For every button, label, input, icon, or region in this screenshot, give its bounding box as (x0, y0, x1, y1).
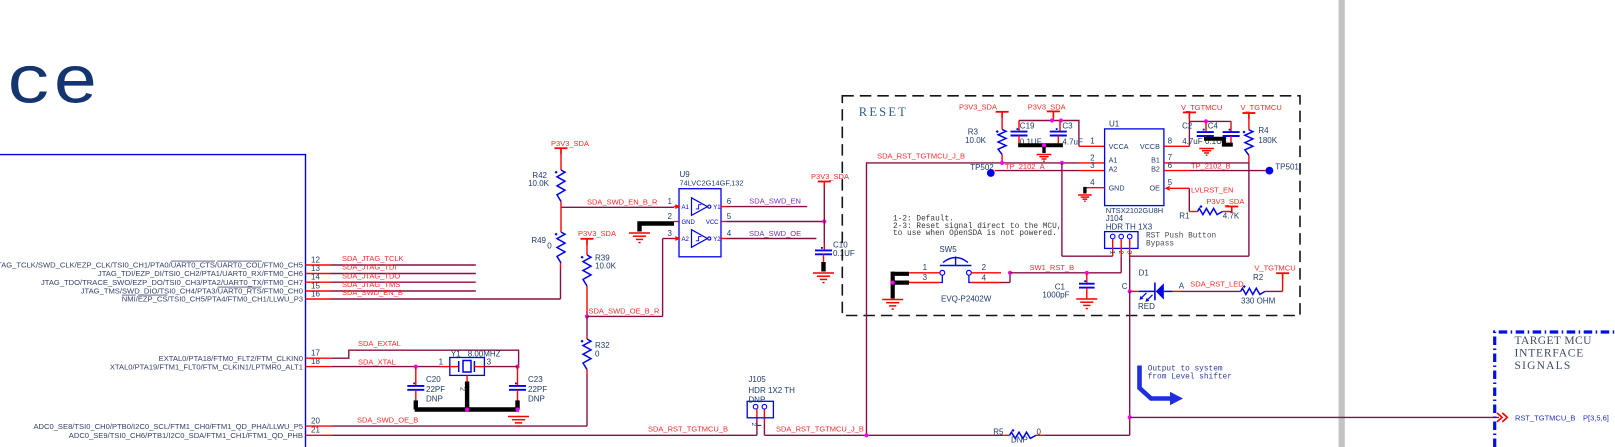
svg-text:C20: C20 (426, 375, 441, 384)
svg-text:C23: C23 (528, 375, 543, 384)
svg-text:2: 2 (668, 212, 673, 221)
svg-text:SDA_SWD_EN_B: SDA_SWD_EN_B (342, 288, 403, 297)
svg-text:SDA_SWD_OE_B_R: SDA_SWD_OE_B_R (589, 306, 660, 315)
svg-text:16: 16 (311, 289, 320, 298)
svg-text:ce: ce (6, 46, 98, 123)
svg-text:SDA_SWD_OE: SDA_SWD_OE (749, 229, 801, 238)
svg-text:V_TGTMCU: V_TGTMCU (1254, 263, 1295, 272)
svg-text:C4: C4 (1208, 122, 1219, 131)
svg-text:Y1: Y1 (451, 350, 461, 359)
svg-text:1: 1 (923, 263, 928, 272)
svg-text:DNP: DNP (426, 394, 443, 403)
svg-text:5: 5 (727, 212, 732, 221)
svg-text:SDA_EXTAL: SDA_EXTAL (358, 339, 401, 348)
svg-text:to use when OpenSDA is not pow: to use when OpenSDA is not powered. (893, 230, 1057, 238)
svg-text:330 OHM: 330 OHM (1241, 296, 1276, 305)
svg-text:V_TGTMCU: V_TGTMCU (1241, 103, 1282, 112)
svg-text:HDR 1X2 TH: HDR 1X2 TH (748, 386, 795, 395)
svg-text:DNP: DNP (748, 395, 765, 404)
svg-text:Output to system: Output to system (1148, 365, 1223, 373)
svg-text:from Level shifter: from Level shifter (1148, 374, 1232, 382)
svg-text:0: 0 (1037, 427, 1042, 436)
svg-text:2: 2 (982, 263, 987, 272)
svg-text:5: 5 (1168, 178, 1173, 187)
svg-text:10.0K: 10.0K (595, 262, 617, 271)
svg-text:1: 1 (668, 197, 673, 206)
svg-text:HDR TH 1X3: HDR TH 1X3 (1106, 222, 1153, 231)
svg-text:3: 3 (923, 273, 928, 282)
svg-text:13: 13 (311, 264, 320, 273)
svg-text:74LVC2G14GF,132: 74LVC2G14GF,132 (680, 179, 744, 188)
svg-text:Y2: Y2 (713, 237, 721, 243)
svg-text:P3V3_SDA: P3V3_SDA (811, 172, 849, 181)
svg-text:R5: R5 (993, 427, 1004, 436)
svg-text:R1: R1 (1179, 212, 1190, 221)
svg-text:RST_TGTMCU_B: RST_TGTMCU_B (1515, 414, 1575, 423)
svg-text:3: 3 (1125, 251, 1132, 255)
svg-text:P[3,5,6]: P[3,5,6] (1583, 414, 1609, 423)
svg-text:3: 3 (487, 357, 492, 366)
svg-text:3: 3 (1090, 161, 1095, 170)
svg-text:SDA_RST_LED: SDA_RST_LED (1190, 280, 1244, 289)
svg-text:22PF: 22PF (426, 385, 445, 394)
svg-text:NMI/EZP_CS/TSI0_CH5/PTA4/FTM0_: NMI/EZP_CS/TSI0_CH5/PTA4/FTM0_CH1/LLWU_P… (122, 295, 303, 304)
svg-text:SW5: SW5 (939, 245, 957, 254)
svg-text:A: A (1179, 281, 1185, 290)
svg-text:A2: A2 (1109, 164, 1118, 173)
svg-text:C: C (1122, 282, 1128, 291)
svg-text:ADC0_SE9/TSI0_CH6/PTB1/I2C0_SD: ADC0_SE9/TSI0_CH6/PTB1/I2C0_SDA/FTM1_CH1… (69, 431, 303, 440)
svg-text:JTAG_TDO/TRACE_SWO/EZP_DO/TSI0: JTAG_TDO/TRACE_SWO/EZP_DO/TSI0_CH3/PTA2/… (41, 278, 303, 287)
svg-text:1000pF: 1000pF (1042, 291, 1069, 300)
svg-text:P3V3_SDA: P3V3_SDA (959, 102, 997, 111)
svg-text:SDA_JTAG_TDO: SDA_JTAG_TDO (342, 271, 400, 280)
svg-text:4.7K: 4.7K (1223, 212, 1240, 221)
svg-text:A1: A1 (682, 205, 690, 211)
svg-text:4: 4 (1090, 178, 1095, 187)
svg-text:0.1UF: 0.1UF (833, 249, 855, 258)
svg-text:1: 1 (439, 357, 444, 366)
svg-text:LVLRST_EN: LVLRST_EN (1191, 186, 1233, 195)
svg-text:SDA_RST_TGTMCU_J_B: SDA_RST_TGTMCU_J_B (776, 424, 864, 433)
svg-text:VCC: VCC (706, 220, 719, 226)
svg-text:VCCB: VCCB (1140, 142, 1160, 151)
svg-text:SW1_RST_B: SW1_RST_B (1030, 263, 1075, 272)
svg-text:RESET: RESET (859, 105, 908, 119)
svg-text:SDA_SWD_EN: SDA_SWD_EN (749, 197, 801, 206)
svg-text:A2: A2 (682, 237, 690, 243)
svg-text:D1: D1 (1139, 269, 1150, 278)
svg-text:SIGNALS: SIGNALS (1515, 360, 1572, 372)
svg-text:U1: U1 (1109, 119, 1120, 128)
svg-text:SDA_SWD_EN_B_R: SDA_SWD_EN_B_R (587, 197, 658, 206)
svg-text:8: 8 (1168, 136, 1173, 145)
svg-text:C3: C3 (1062, 121, 1073, 130)
svg-text:4: 4 (727, 229, 732, 238)
svg-text:2: 2 (750, 423, 757, 427)
svg-text:R2: R2 (1253, 273, 1264, 282)
svg-text:SDA_SWD_OE_B: SDA_SWD_OE_B (357, 415, 418, 424)
svg-text:2: 2 (1117, 251, 1124, 255)
svg-text:INTERFACE: INTERFACE (1515, 348, 1585, 360)
svg-text:R4: R4 (1258, 126, 1269, 135)
svg-text:4: 4 (982, 273, 987, 282)
svg-text:SDA_XTAL: SDA_XTAL (358, 358, 396, 367)
svg-text:RST Push Button: RST Push Button (1146, 233, 1216, 241)
svg-text:0: 0 (595, 350, 600, 359)
svg-text:10.0K: 10.0K (965, 136, 987, 145)
svg-text:EVQ-P2402W: EVQ-P2402W (941, 294, 992, 303)
svg-text:V_TGTMCU: V_TGTMCU (1181, 103, 1222, 112)
svg-text:GND: GND (682, 220, 696, 226)
svg-text:6: 6 (727, 197, 732, 206)
svg-text:ADC0_SE8/TSI0_CH0/PTB0/I2C0_SC: ADC0_SE8/TSI0_CH0/PTB0/I2C0_SCL/FTM1_CH0… (33, 422, 303, 431)
svg-text:VCCA: VCCA (1109, 142, 1129, 151)
svg-text:GND: GND (1109, 184, 1125, 193)
svg-text:DNP: DNP (1011, 435, 1028, 444)
svg-text:8.00MHZ: 8.00MHZ (468, 350, 501, 359)
svg-text:RED: RED (1138, 302, 1155, 311)
svg-text:SDA_RST_TGTMCU_J_B: SDA_RST_TGTMCU_J_B (877, 151, 965, 160)
svg-text:JTAG_TDI/EZP_DI/TSI0_CH2/PTA1/: JTAG_TDI/EZP_DI/TSI0_CH2/PTA1/UART0_RX/F… (98, 269, 303, 278)
svg-text:TP501: TP501 (1275, 162, 1299, 171)
svg-text:20: 20 (311, 417, 320, 426)
svg-text:C2: C2 (1182, 122, 1193, 131)
svg-text:180K: 180K (1258, 136, 1277, 145)
svg-text:J105: J105 (748, 375, 766, 384)
svg-text:4.7uF: 4.7uF (1062, 137, 1083, 146)
svg-text:SDA_JTAG_TDI: SDA_JTAG_TDI (342, 263, 396, 272)
svg-text:P3V3_SDA: P3V3_SDA (1206, 197, 1244, 206)
svg-text:14: 14 (311, 273, 320, 282)
svg-text:0: 0 (547, 242, 552, 251)
svg-text:R49: R49 (531, 236, 546, 245)
svg-text:P3V3_SDA: P3V3_SDA (1028, 102, 1066, 111)
svg-text:Y1: Y1 (713, 205, 721, 211)
svg-text:OE: OE (1150, 184, 1161, 193)
svg-text:Bypass: Bypass (1146, 241, 1174, 249)
svg-text:B2: B2 (1151, 164, 1160, 173)
svg-text:1: 1 (1108, 251, 1115, 255)
svg-text:P3V3_SDA: P3V3_SDA (551, 139, 589, 148)
svg-text:C19: C19 (1020, 121, 1035, 130)
svg-text:1: 1 (1090, 136, 1095, 145)
svg-text:DNP: DNP (528, 394, 545, 403)
svg-text:2: 2 (459, 387, 466, 391)
svg-text:10.0K: 10.0K (528, 179, 550, 188)
svg-text:P3V3_SDA: P3V3_SDA (578, 229, 616, 238)
svg-text:3: 3 (668, 229, 673, 238)
svg-text:TP_2102_A: TP_2102_A (1005, 162, 1045, 171)
svg-text:21: 21 (311, 426, 320, 435)
svg-text:22PF: 22PF (528, 385, 547, 394)
svg-text:4.7uF: 4.7uF (1182, 137, 1203, 146)
svg-text:TARGET MCU: TARGET MCU (1515, 335, 1593, 347)
svg-text:XTAL0/PTA19/FTM1_FLT0/FTM_CLKI: XTAL0/PTA19/FTM1_FLT0/FTM_CLKIN1/LPTMR0_… (110, 362, 303, 371)
svg-text:TP_2102_B: TP_2102_B (1191, 161, 1231, 170)
svg-text:SDA_RST_TGTMCU_B: SDA_RST_TGTMCU_B (648, 424, 728, 433)
